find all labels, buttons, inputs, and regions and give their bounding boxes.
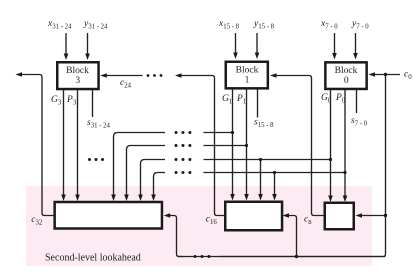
svg-text:x7 - 0: x7 - 0 xyxy=(320,19,338,31)
svg-text:Block: Block xyxy=(236,65,259,75)
svg-text:s7 - 0: s7 - 0 xyxy=(351,116,368,128)
svg-text:Block: Block xyxy=(335,66,358,76)
svg-text:y7 - 0: y7 - 0 xyxy=(351,19,369,31)
svg-text:0: 0 xyxy=(344,76,349,86)
svg-text:s15 - 8: s15 - 8 xyxy=(254,117,274,129)
svg-text:c0: c0 xyxy=(404,70,412,82)
svg-text:1: 1 xyxy=(245,76,250,86)
svg-text:P0: P0 xyxy=(335,93,346,105)
svg-text:3: 3 xyxy=(75,76,80,86)
svg-text:x31 - 24: x31 - 24 xyxy=(47,19,72,31)
svg-text:Block: Block xyxy=(66,66,89,76)
svg-text:x15 - 8: x15 - 8 xyxy=(218,19,240,31)
svg-text:P3: P3 xyxy=(66,95,77,107)
svg-text:Second-level lookahead: Second-level lookahead xyxy=(45,253,141,264)
svg-text:G3: G3 xyxy=(51,95,62,107)
svg-text:y31 - 24: y31 - 24 xyxy=(83,19,108,31)
svg-text:P1: P1 xyxy=(236,94,246,106)
svg-text:y15 - 8: y15 - 8 xyxy=(253,19,275,31)
svg-text:s31 - 24: s31 - 24 xyxy=(87,118,111,130)
svg-text:c24: c24 xyxy=(120,78,132,90)
svg-text:G1: G1 xyxy=(222,94,232,106)
